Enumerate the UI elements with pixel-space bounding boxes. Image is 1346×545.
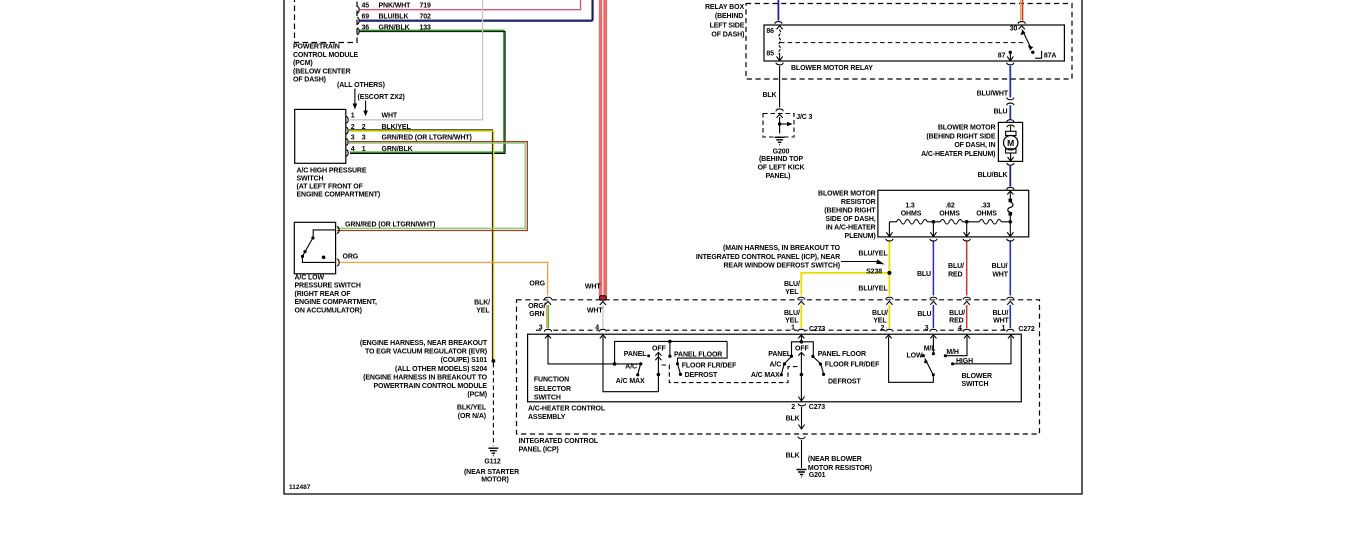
svg-text:A/C: A/C <box>770 362 782 369</box>
svg-text:G201: G201 <box>809 472 826 479</box>
svg-text:GRN/BLK: GRN/BLK <box>382 146 413 153</box>
blower motor resistor label <box>818 190 876 240</box>
svg-text:CONTROL MODULE: CONTROL MODULE <box>293 52 359 59</box>
svg-text:YEL: YEL <box>785 289 799 296</box>
svg-text:SELECTOR: SELECTOR <box>534 386 571 393</box>
svg-text:DEFROST: DEFROST <box>685 372 718 379</box>
wire BLK to ICP edge <box>786 407 805 429</box>
svg-text:INTEGRATED CONTROL PANEL (ICP): INTEGRATED CONTROL PANEL (ICP), NEAR <box>696 254 840 261</box>
svg-text:POWERTRAIN CONTROL MODULE: POWERTRAIN CONTROL MODULE <box>373 383 487 390</box>
A/C low pressure switch box <box>294 222 335 273</box>
middle selector cluster feed T <box>790 336 815 358</box>
svg-text:OFF: OFF <box>652 345 666 352</box>
svg-text:ORG: ORG <box>529 280 545 287</box>
BLU/YEL 2 feed into blower switch <box>889 337 935 383</box>
svg-text:RED: RED <box>949 318 963 325</box>
svg-text:(OR N/A): (OR N/A) <box>458 413 486 420</box>
G201 location label <box>808 456 872 472</box>
assembly entry arrow (BLU/RED 4) <box>964 335 970 338</box>
ICP edge connector at BLU 3 <box>929 295 938 328</box>
left cluster PANEL FLOOR / FLR/DEF / DEFROST labels <box>674 351 737 379</box>
svg-text:G200: G200 <box>773 148 790 155</box>
A/C low pressure switch label <box>295 275 378 315</box>
A/C high pressure switch label <box>297 168 381 199</box>
wire BLK from relay 85 to J/C 3 <box>762 63 783 112</box>
svg-text:A/C MAX: A/C MAX <box>616 378 645 385</box>
svg-text:(BEHIND RIGHT SIDE: (BEHIND RIGHT SIDE <box>926 133 995 140</box>
PCM pin 45 label row <box>362 2 432 9</box>
svg-text:WHT: WHT <box>587 308 603 315</box>
S238 callout text <box>696 245 841 270</box>
middle cluster left arm A/C, A/C MAX <box>751 357 791 379</box>
svg-text:30: 30 <box>1010 26 1018 33</box>
svg-text:45: 45 <box>362 2 370 9</box>
svg-text:RESISTOR: RESISTOR <box>841 199 876 206</box>
svg-text:(RIGHT REAR OF: (RIGHT REAR OF <box>295 291 352 298</box>
svg-text:(PCM): (PCM) <box>467 392 487 399</box>
svg-text:BLU/BLK: BLU/BLK <box>379 13 409 20</box>
svg-text:(ALL OTHER MODELS) S204: (ALL OTHER MODELS) S204 <box>395 366 487 373</box>
relay feed wire ORG/RED into 30 <box>1018 0 1025 24</box>
ICP edge connector at BLU/RED 4 <box>962 295 971 328</box>
svg-text:86: 86 <box>766 28 774 35</box>
junction S101/S204 <box>492 359 496 363</box>
svg-text:J/C 3: J/C 3 <box>796 114 812 121</box>
svg-text:OHMS: OHMS <box>901 210 922 217</box>
svg-text:BLU/: BLU/ <box>949 310 965 317</box>
svg-text:WHT: WHT <box>382 113 398 120</box>
A/C high pressure switch box <box>295 109 346 163</box>
svg-text:IN A/C-HEATER: IN A/C-HEATER <box>826 224 876 231</box>
svg-text:719: 719 <box>420 2 432 9</box>
svg-text:BLU/: BLU/ <box>948 263 964 270</box>
svg-text:A/C HIGH PRESSURE: A/C HIGH PRESSURE <box>297 168 367 175</box>
svg-text:PLENUM): PLENUM) <box>845 233 876 240</box>
middle cluster right arm FLOOR FLR/DEF, DEFROST <box>814 357 881 385</box>
svg-text:(NEAR BLOWER: (NEAR BLOWER <box>808 456 862 463</box>
LP switch internal contacts <box>301 230 336 263</box>
relay pin 87 <box>998 51 1014 65</box>
middle cluster OFF wiper down to pin 2 <box>798 352 804 401</box>
BLK/YEL (OR N/A) label <box>457 405 487 421</box>
svg-text:BLK: BLK <box>786 453 800 460</box>
(ALL OTHERS) arrow label <box>337 82 385 110</box>
svg-text:.62: .62 <box>945 203 955 210</box>
svg-text:FLOOR FLR/DEF: FLOOR FLR/DEF <box>682 362 737 369</box>
ICP edge connector at BLU/YEL 2 <box>885 295 894 328</box>
BLU/RED 4 labels below edge <box>949 310 965 332</box>
junction S238 <box>887 271 891 275</box>
S101 callout text <box>360 340 488 399</box>
svg-text:85: 85 <box>766 51 774 58</box>
assembly entry arrow (BLU/WHT 1) <box>1008 335 1014 338</box>
blower motor label <box>921 124 996 158</box>
svg-text:SWITCH: SWITCH <box>297 176 324 183</box>
PCM pin 45 connector <box>357 6 359 13</box>
assembly entry arrow pin 3 <box>545 335 551 338</box>
svg-text:PANEL): PANEL) <box>766 173 791 180</box>
BLU 3 labels below edge <box>917 311 931 332</box>
svg-text:BLK: BLK <box>762 92 776 99</box>
junction connector J/C 3 (dashed box) <box>763 114 813 138</box>
svg-text:FLOOR FLR/DEF: FLOOR FLR/DEF <box>825 362 880 369</box>
svg-text:PANEL FLOOR: PANEL FLOOR <box>674 351 722 358</box>
svg-text:PANEL: PANEL <box>768 351 791 358</box>
left cluster OFF wiper <box>652 345 666 391</box>
ground G112 <box>464 448 519 483</box>
resistor chain <box>889 220 1010 225</box>
svg-text:4: 4 <box>595 324 599 331</box>
svg-text:1.3: 1.3 <box>905 203 915 210</box>
svg-text:BLK/YEL: BLK/YEL <box>457 405 487 412</box>
svg-text:A/C LOW: A/C LOW <box>295 275 325 282</box>
WHT connector at ICP edge (below highlight) <box>600 302 606 328</box>
svg-text:C272: C272 <box>1018 326 1034 333</box>
svg-text:WHT: WHT <box>585 283 601 290</box>
svg-text:SIDE OF DASH,: SIDE OF DASH, <box>825 216 875 223</box>
svg-text:(BELOW CENTER: (BELOW CENTER <box>293 68 351 75</box>
svg-text:WHT: WHT <box>993 318 1009 325</box>
svg-text:REAR WINDOW DEFROST SWITCH): REAR WINDOW DEFROST SWITCH) <box>723 263 840 270</box>
relay box (dashed) <box>746 4 1072 80</box>
svg-text:M: M <box>1007 138 1014 148</box>
integrated control panel (ICP) dashed box <box>517 300 1040 434</box>
svg-text:PNK/WHT: PNK/WHT <box>379 2 412 9</box>
wire BLU/WHT from resistor to ICP <box>992 241 1011 297</box>
svg-text:3: 3 <box>351 135 355 142</box>
svg-text:BLU/BLK: BLU/BLK <box>978 172 1008 179</box>
wire PNK/WHT 719 <box>360 0 581 10</box>
wire BLU/RED from resistor to ICP <box>948 241 967 297</box>
svg-text:ENGINE COMPARTMENT): ENGINE COMPARTMENT) <box>297 191 381 198</box>
C272 pin 2 connector arc <box>885 328 893 332</box>
svg-text:OF DASH): OF DASH) <box>293 76 326 83</box>
svg-text:ON ACCUMULATOR): ON ACCUMULATOR) <box>295 307 362 314</box>
svg-text:112487: 112487 <box>289 484 311 491</box>
svg-text:3: 3 <box>539 324 543 331</box>
wire ORG/GRN below ICP edge <box>547 305 549 328</box>
svg-text:BLU/: BLU/ <box>784 281 800 288</box>
BLU/YEL labels below edge <box>784 310 800 331</box>
svg-text:3: 3 <box>925 325 929 332</box>
ICP edge exit connector (BLK) <box>797 436 806 440</box>
svg-text:LEFT SIDE: LEFT SIDE <box>710 22 745 29</box>
svg-text:BLU/: BLU/ <box>992 263 1008 270</box>
motor symbol <box>1004 125 1018 161</box>
svg-text:MOTOR): MOTOR) <box>481 476 509 483</box>
connector line C273/C272 (dashed) <box>536 329 1014 331</box>
wire WHT from A/C high pressure switch pin 1 (up, off top) <box>350 0 483 120</box>
assembly entry arrow pin 1 <box>798 335 804 338</box>
svg-text:RED: RED <box>948 272 962 279</box>
svg-text:(BEHIND RIGHT: (BEHIND RIGHT <box>824 207 876 214</box>
svg-text:A/C-HEATER PLENUM): A/C-HEATER PLENUM) <box>921 151 995 158</box>
svg-text:87: 87 <box>998 53 1006 60</box>
svg-text:(ENGINE HARNESS, NEAR BREAKOUT: (ENGINE HARNESS, NEAR BREAKOUT <box>360 340 488 347</box>
assembly entry arrow (BLU/YEL 2) <box>886 335 892 338</box>
assembly entry arrow pin 4 <box>600 335 606 338</box>
svg-text:87A: 87A <box>1044 53 1057 60</box>
BLU/YEL 2 labels below edge <box>872 310 888 332</box>
blower switch M/L contact <box>932 337 935 356</box>
svg-text:ASSEMBLY: ASSEMBLY <box>528 414 566 421</box>
function selector switch label <box>534 376 571 401</box>
assembly entry arrow (BLU 3) <box>930 335 936 338</box>
relay mechanical link (dashed) <box>780 42 1024 44</box>
svg-text:OFF: OFF <box>795 345 809 352</box>
assembly exit C273 pin 2 <box>791 404 825 411</box>
resistor values <box>901 203 997 218</box>
relay box label <box>705 4 745 39</box>
svg-text:YEL: YEL <box>873 318 887 325</box>
svg-text:OHMS: OHMS <box>976 210 997 217</box>
BLU/YEL labels above edge <box>784 281 800 296</box>
A/C-heater control assembly box <box>528 334 1022 402</box>
C273 pin 3 connector arc <box>544 328 552 332</box>
svg-text:BLU/YEL: BLU/YEL <box>858 285 888 292</box>
svg-text:1: 1 <box>362 146 366 153</box>
svg-text:OF DASH, IN: OF DASH, IN <box>954 142 995 149</box>
svg-text:.33: .33 <box>981 203 991 210</box>
svg-text:(MAIN HARNESS, IN BREAKOUT TO: (MAIN HARNESS, IN BREAKOUT TO <box>723 245 841 252</box>
svg-text:C273: C273 <box>809 404 825 411</box>
svg-text:702: 702 <box>420 13 432 20</box>
svg-text:ORG: ORG <box>343 254 359 261</box>
assembly label <box>528 405 606 421</box>
blower switch M/H contact <box>944 337 967 358</box>
PCM pin 69 connector <box>357 17 359 24</box>
S238 callout arrow <box>841 259 885 264</box>
svg-text:BLU/: BLU/ <box>872 310 888 317</box>
wire GRN/BLK 133 down to A/C high pressure switch pin 4 <box>350 30 505 153</box>
PCM pin 36 label row <box>362 25 432 32</box>
ground G200 <box>758 137 805 180</box>
svg-text:BLOWER MOTOR: BLOWER MOTOR <box>818 190 876 197</box>
svg-text:HIGH: HIGH <box>956 358 973 365</box>
svg-text:ENGINE COMPARTMENT,: ENGINE COMPARTMENT, <box>295 299 378 306</box>
(ESCORT ZX2) arrow label <box>358 94 405 116</box>
ICP edge connector at BLU/WHT 1 <box>1006 295 1015 328</box>
HP switch wire name labels <box>382 113 472 153</box>
svg-text:LOW: LOW <box>907 353 923 360</box>
svg-text:OF LEFT KICK: OF LEFT KICK <box>758 165 805 172</box>
HP switch pin numbers <box>351 113 366 153</box>
svg-text:(BEHIND TOP: (BEHIND TOP <box>759 156 804 163</box>
ICP edge connector at ORG/GRN <box>544 295 553 304</box>
svg-text:BLU/: BLU/ <box>992 310 1008 317</box>
wire BLK to ground G201 <box>786 440 802 468</box>
HP switch pin connectors <box>346 116 348 156</box>
wire BLK/YEL (OR N/A) dashed to ground <box>492 363 494 446</box>
blower motor box <box>998 122 1022 161</box>
svg-text:BLK/: BLK/ <box>474 299 490 306</box>
PCM label <box>293 44 359 84</box>
svg-text:2: 2 <box>881 325 885 332</box>
PCM pin 69 label row <box>362 13 432 20</box>
svg-text:MOTOR RESISTOR): MOTOR RESISTOR) <box>808 465 872 472</box>
wire BLU/YEL from resistor to S238 and branches <box>801 241 889 297</box>
BLU/WHT 1 labels below edge <box>992 310 1009 332</box>
svg-text:1: 1 <box>351 113 355 120</box>
svg-text:M/L: M/L <box>924 346 937 353</box>
left selector cluster: pin3 feed line <box>548 336 641 366</box>
svg-text:A/C MAX: A/C MAX <box>751 372 780 379</box>
left cluster PANEL contact <box>624 351 650 358</box>
svg-text:BLU: BLU <box>917 311 931 318</box>
C273 pin 1 connector arc + label <box>797 326 825 333</box>
resistor box bottom exit arcs <box>886 239 1014 241</box>
svg-text:BLU: BLU <box>993 109 1007 116</box>
svg-text:(ESCORT ZX2): (ESCORT ZX2) <box>358 94 405 101</box>
svg-text:2: 2 <box>791 404 795 411</box>
svg-text:A/C: A/C <box>625 364 637 371</box>
relay feed wire BLU (top) <box>775 0 782 24</box>
svg-text:RELAY BOX: RELAY BOX <box>705 4 744 11</box>
svg-text:C273: C273 <box>809 326 825 333</box>
svg-text:BLU/: BLU/ <box>784 310 800 317</box>
C272 pin 4 connector arc <box>963 328 971 332</box>
svg-text:S238: S238 <box>866 269 882 276</box>
svg-text:PANEL: PANEL <box>624 351 647 358</box>
svg-text:INTEGRATED CONTROL: INTEGRATED CONTROL <box>519 438 599 445</box>
left cluster A/C + A/C MAX contacts <box>616 362 645 385</box>
C272 pin 3 connector arc <box>929 328 937 332</box>
svg-text:(ENGINE HARNESS IN BREAKOUT TO: (ENGINE HARNESS IN BREAKOUT TO <box>363 374 488 381</box>
svg-text:BLK: BLK <box>786 416 800 423</box>
svg-text:PANEL FLOOR: PANEL FLOOR <box>818 351 866 358</box>
ORG/GRN labels <box>528 303 546 332</box>
blower switch HIGH contact <box>951 337 1011 366</box>
motor box bottom exit <box>1007 163 1014 165</box>
svg-text:YEL: YEL <box>476 308 490 315</box>
WHT label below edge <box>587 308 603 332</box>
svg-text:GRN: GRN <box>529 311 544 318</box>
wire ORG from LP switch to ICP <box>340 262 548 296</box>
LP switch pin connectors <box>337 227 339 266</box>
svg-text:DEFROST: DEFROST <box>828 378 861 385</box>
blower switch labels <box>907 346 992 388</box>
svg-text:(NEAR STARTER: (NEAR STARTER <box>464 469 519 476</box>
PCM module box (dashed, cut off at top) <box>295 0 358 43</box>
highlighted wire WHT (hot circuit trace) <box>599 0 607 300</box>
svg-text:(ALL OTHERS): (ALL OTHERS) <box>337 82 385 89</box>
ICP edge connector at BLU/YEL 1 <box>797 295 806 328</box>
svg-text:WHT: WHT <box>992 272 1008 279</box>
svg-text:(COUPE) S101: (COUPE) S101 <box>441 357 488 364</box>
svg-text:BLOWER MOTOR RELAY: BLOWER MOTOR RELAY <box>791 65 873 72</box>
svg-text:GRN/RED (OR LTGRN/WHT): GRN/RED (OR LTGRN/WHT) <box>382 135 472 142</box>
svg-text:OHMS: OHMS <box>939 210 960 217</box>
C272 connector arc + label <box>1006 326 1035 333</box>
svg-text:1: 1 <box>791 324 795 331</box>
BLU/YEL wire above ICP at x=801 <box>800 274 802 297</box>
left cluster bus riser and top bus <box>615 340 728 366</box>
svg-text:TO EGR VACUUM REGULATOR (EVR): TO EGR VACUUM REGULATOR (EVR) <box>365 349 487 356</box>
svg-text:(AT LEFT FRONT OF: (AT LEFT FRONT OF <box>297 184 364 191</box>
PCM pin 36 connector <box>357 28 359 35</box>
svg-text:M/H: M/H <box>946 349 959 356</box>
wire GRN/RED loop from HP switch pin 3 to A/C low pressure switch <box>337 142 527 231</box>
diagram outer border <box>284 0 1082 494</box>
svg-text:(PCM): (PCM) <box>293 60 313 67</box>
svg-text:1: 1 <box>1002 325 1006 332</box>
relay pin 30 and switch arm <box>1010 26 1057 60</box>
svg-text:BLU: BLU <box>917 271 931 278</box>
resistor output drops <box>886 222 1013 237</box>
svg-text:BLU/WHT: BLU/WHT <box>977 90 1009 97</box>
blower motor relay box <box>764 25 1064 72</box>
svg-text:PRESSURE SWITCH: PRESSURE SWITCH <box>295 283 361 290</box>
wire BLU/BLK from motor to resistor <box>978 166 1014 194</box>
ground G201 <box>797 470 826 480</box>
svg-text:69: 69 <box>362 13 370 20</box>
svg-text:POWERTRAIN: POWERTRAIN <box>293 44 340 51</box>
wire BLU/BLK 702 <box>360 0 594 21</box>
mechanical gang dashes <box>662 365 801 383</box>
wire BLU / BLU/WHT from relay 87 to motor <box>977 66 1014 122</box>
BLK/YEL vertical label <box>474 299 490 314</box>
relay coil + pins 86/85 <box>766 26 782 61</box>
wire BLK/YEL from HP switch pin 2 down to S101 junction <box>349 130 494 361</box>
blower motor resistor box <box>878 190 1029 237</box>
middle cluster PANEL / OFF / PANEL FLOOR labels <box>768 345 866 358</box>
left cluster WHT pin4 path to wiper <box>603 337 658 392</box>
ICP label <box>519 438 599 453</box>
svg-text:OF DASH): OF DASH) <box>711 32 744 39</box>
svg-text:BLOWER: BLOWER <box>962 373 992 380</box>
svg-text:ORG/: ORG/ <box>528 303 546 310</box>
svg-text:G112: G112 <box>484 458 500 465</box>
svg-text:FUNCTION: FUNCTION <box>534 376 569 383</box>
svg-text:4: 4 <box>958 325 962 332</box>
C273 pin 4 connector arc <box>599 328 607 332</box>
svg-text:A/C-HEATER CONTROL: A/C-HEATER CONTROL <box>528 405 606 412</box>
thermal limiter squiggle <box>1008 192 1013 224</box>
svg-text:3: 3 <box>362 135 366 142</box>
svg-text:SWITCH: SWITCH <box>534 395 561 402</box>
svg-text:SWITCH: SWITCH <box>962 381 989 388</box>
svg-text:PANEL (ICP): PANEL (ICP) <box>519 447 559 454</box>
svg-text:4: 4 <box>351 146 355 153</box>
svg-text:BLU/YEL: BLU/YEL <box>858 251 888 258</box>
svg-text:BLOWER MOTOR: BLOWER MOTOR <box>938 124 996 131</box>
wire BLU from resistor to ICP <box>917 241 933 297</box>
svg-text:GRN/RED (OR LTGRN/WHT): GRN/RED (OR LTGRN/WHT) <box>345 221 435 228</box>
svg-text:(BEHIND: (BEHIND <box>715 13 743 20</box>
